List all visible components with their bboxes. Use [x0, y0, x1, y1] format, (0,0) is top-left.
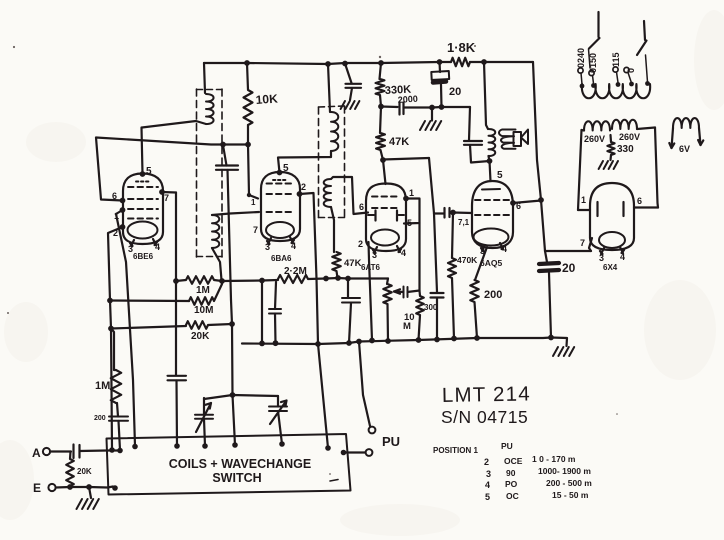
svg-text:1: 1	[581, 195, 586, 205]
wire B+ rail right down	[533, 62, 591, 251]
resistor 1M horizontal	[176, 276, 222, 284]
ground bus bypass	[341, 101, 360, 109]
svg-text:4: 4	[620, 252, 625, 262]
node gb-1	[273, 340, 279, 346]
capacitor A input	[72, 445, 74, 459]
node bus-cap	[342, 61, 348, 67]
wire V5 pin7 lead	[589, 238, 592, 251]
node tap-115	[616, 82, 621, 87]
svg-text:5: 5	[283, 163, 289, 174]
node tap-0150	[591, 83, 596, 88]
wire V1 pin7 right	[162, 191, 176, 194]
capacitor 2000p	[398, 102, 400, 115]
node sw-7	[279, 441, 285, 447]
wire T1 secondary bottom to AVC node	[212, 248, 222, 280]
svg-text:20K: 20K	[191, 331, 210, 342]
wire V1 pin6 loop	[96, 138, 248, 201]
svg-text:7,1: 7,1	[458, 218, 470, 227]
node gnd-2000	[429, 105, 435, 111]
wire V3 diode detector loop	[404, 199, 420, 224]
svg-text:COILS + WAVECHANGE: COILS + WAVECHANGE	[169, 457, 312, 471]
node bus-10K	[244, 60, 250, 66]
node sw-8	[325, 445, 331, 451]
wire V5 plate right	[634, 206, 658, 208]
node bus-20uF	[437, 59, 443, 65]
wire T2 secondary top to V3 grid	[331, 177, 368, 214]
transformer HT secondary winding	[584, 120, 637, 131]
wire V3 pin2 to ground bus	[369, 242, 373, 340]
capacitor 200p osc line	[168, 375, 187, 377]
variable capacitor VC2	[269, 406, 287, 408]
resistor 330K	[376, 63, 385, 107]
node bus-IF2	[325, 61, 331, 67]
node E-box	[112, 485, 118, 491]
svg-text:200 - 500 m: 200 - 500 m	[546, 478, 592, 488]
node E-20K	[67, 484, 73, 490]
resistor 330 centre tap	[607, 135, 614, 155]
svg-text:15 - 50 m: 15 - 50 m	[552, 490, 589, 500]
svg-text:20: 20	[449, 86, 461, 98]
wire V4 pin6 to B+	[513, 201, 541, 204]
node gb-2	[315, 341, 321, 347]
node B+ pin6	[538, 197, 544, 203]
svg-text:300: 300	[424, 303, 438, 312]
svg-text:POSITION 1: POSITION 1	[433, 446, 478, 455]
wire osc line down to switch	[231, 300, 235, 445]
svg-text:47K: 47K	[389, 136, 409, 148]
ground HT filter	[431, 108, 433, 121]
svg-text:A: A	[32, 446, 41, 460]
node varcap junction	[230, 392, 236, 398]
svg-text:E: E	[33, 481, 41, 495]
node tap-right	[645, 81, 650, 86]
wire tone cap lead	[469, 107, 470, 141]
capacitor V4 grid bypass	[431, 292, 444, 294]
potentiometer 10M volume	[383, 279, 391, 342]
node gb-8	[434, 337, 440, 343]
node sw-3	[132, 444, 138, 450]
svg-text:3: 3	[486, 469, 491, 479]
svg-text:200: 200	[484, 289, 502, 301]
wire B+ top bus left section	[204, 62, 451, 64]
svg-text:6: 6	[359, 202, 364, 212]
svg-text:1: 1	[409, 188, 414, 198]
capacitor V2 cathode bypass	[269, 308, 281, 310]
resistor 1.8K	[451, 58, 470, 66]
variable capacitor VC1	[195, 414, 213, 416]
svg-text:OC: OC	[506, 491, 519, 501]
svg-text:PU: PU	[382, 434, 400, 449]
node V4 grid	[450, 210, 456, 216]
capacitor tone 0.01	[464, 140, 482, 142]
switch mains pole 2	[637, 41, 647, 56]
wire V1 pin2 down to switch	[108, 227, 123, 449]
IF transformer T2 core (dashed box)	[318, 107, 320, 218]
svg-text:1: 1	[251, 198, 256, 207]
wire 20uF bottom	[432, 106, 470, 109]
svg-text:4: 4	[401, 248, 406, 258]
node AVC tap lower	[108, 326, 114, 332]
node 20uF-bottom	[439, 104, 445, 110]
svg-text:6BA6: 6BA6	[271, 254, 292, 263]
ground main	[551, 338, 567, 347]
terminal tap circle 0150	[589, 70, 594, 75]
wire OPT primary bottom	[489, 156, 491, 181]
node avc-b	[335, 275, 341, 281]
svg-text:6: 6	[637, 196, 642, 206]
capacitor AF coupling	[434, 212, 444, 214]
inductor T1 secondary	[212, 215, 219, 248]
svg-text:5: 5	[146, 166, 152, 177]
svg-text:S/N 04715: S/N 04715	[441, 407, 528, 427]
resistor 20K A-E	[66, 452, 74, 487]
svg-text:10M: 10M	[194, 305, 213, 316]
resistor 200 cathode	[470, 247, 487, 338]
node gb-6	[385, 338, 391, 344]
inductor OPT primary	[489, 129, 496, 156]
node cathode V2 junction	[259, 278, 265, 284]
svg-text:4: 4	[485, 480, 490, 490]
tube V2 6BA6 envelope and internals	[261, 172, 300, 241]
wire bus to T2 primary	[328, 64, 330, 112]
pin 6 V4	[510, 200, 516, 206]
mark inside box	[330, 480, 338, 482]
wire PU upper	[359, 342, 370, 427]
svg-text:SWITCH: SWITCH	[212, 471, 261, 485]
wire E to switch	[56, 487, 113, 488]
wire V2 pin2 down to bus	[300, 193, 319, 344]
svg-text:115: 115	[611, 52, 621, 67]
svg-text:260V: 260V	[584, 134, 605, 144]
svg-text:6V: 6V	[679, 144, 690, 154]
node sw-9	[341, 450, 347, 456]
svg-text:200: 200	[94, 415, 106, 422]
node gb-3	[346, 340, 352, 346]
switch mains pole 1	[589, 38, 600, 49]
wire HT box	[578, 128, 658, 211]
resistor 20K horizontal	[186, 321, 232, 329]
node gb-10	[474, 335, 480, 341]
inductor OPT secondary	[499, 130, 516, 149]
svg-text:470K: 470K	[457, 255, 478, 265]
wire V1 pin1 down to switch	[116, 210, 135, 446]
node gb-4	[356, 339, 362, 345]
svg-text:4: 4	[155, 242, 160, 252]
svg-text:7: 7	[164, 193, 169, 203]
svg-text:M: M	[403, 321, 411, 332]
svg-text:260V: 260V	[619, 132, 640, 142]
pin 2 V2	[297, 191, 303, 197]
node sw-6	[232, 442, 238, 448]
node gb-5	[369, 338, 375, 344]
wire cap to switch	[80, 449, 121, 452]
arrow 6V left	[669, 143, 674, 148]
svg-text:1000- 1900 m: 1000- 1900 m	[538, 466, 591, 476]
node pin7-1M junction	[173, 278, 179, 284]
tube V3 6AT6 envelope and internals	[366, 184, 406, 252]
node AVC tap upper	[107, 298, 113, 304]
wire V2 cathode ground	[261, 281, 263, 344]
svg-text:PO: PO	[505, 479, 518, 489]
inductor T2 primary	[331, 112, 338, 151]
capacitor 20uF second electrolytic	[545, 251, 547, 262]
terminal tap circle 0	[613, 67, 618, 72]
svg-text:2: 2	[484, 457, 489, 467]
wire varcap top link	[204, 395, 278, 399]
transformer mains primary winding	[582, 84, 650, 98]
tube V4 6AQ5 envelope and internals	[472, 181, 513, 248]
wire 10K junction down to V2 pin	[248, 145, 258, 199]
resistor 10M horizontal	[189, 284, 222, 305]
node sw-1	[109, 447, 115, 453]
resistor 47K IF2	[332, 252, 340, 278]
node 20K junction	[229, 321, 235, 327]
node avc-c	[345, 276, 351, 282]
svg-text:10K: 10K	[255, 91, 278, 107]
svg-text:1·8K: 1·8K	[447, 40, 476, 55]
svg-text:4: 4	[502, 244, 507, 254]
wire 6V leads	[672, 128, 701, 148]
wire V1 pin5 top cap	[142, 128, 143, 174]
svg-text:2000: 2000	[397, 94, 418, 105]
svg-text:OCE: OCE	[504, 456, 523, 466]
terminal tap circle 0240	[578, 68, 583, 73]
svg-text:0240: 0240	[576, 48, 586, 68]
wire T2 secondary bottom to 47K	[331, 207, 334, 252]
resistor 10K	[244, 63, 253, 125]
arrow 6V right	[698, 140, 703, 145]
capacitor AVC decouple	[342, 297, 360, 299]
svg-text:4: 4	[291, 241, 296, 251]
wire bus to switch	[318, 344, 328, 448]
pin 5 V2	[277, 170, 283, 176]
svg-text:2·2M: 2·2M	[284, 266, 307, 277]
wire A to cap	[50, 450, 71, 452]
pin 2 V1	[120, 224, 126, 230]
inductor T2 secondary	[324, 179, 331, 207]
svg-text:330: 330	[617, 144, 634, 155]
svg-text:1M: 1M	[196, 285, 210, 296]
wire V2 pin5 to T2 primary	[278, 151, 331, 173]
wire V5 plate left	[578, 209, 590, 211]
svg-text:2: 2	[358, 239, 363, 249]
node gb-0	[259, 341, 265, 347]
inductor 6V winding	[673, 118, 699, 128]
svg-text:90: 90	[506, 468, 516, 478]
wire B+ to OPT primary	[484, 62, 488, 129]
speaker	[514, 132, 522, 146]
wire T1 secondary top to V2 grid	[212, 212, 259, 215]
box coils and wavechange switch	[107, 434, 351, 495]
svg-text:6AT6: 6AT6	[361, 263, 381, 272]
svg-text:PU: PU	[501, 441, 513, 451]
ground E	[89, 487, 91, 498]
svg-text:7: 7	[253, 225, 258, 235]
svg-text:1M: 1M	[95, 380, 110, 392]
wire PU lower	[344, 451, 366, 453]
wire T1 primary bottom to V1 grid cap	[142, 121, 206, 128]
wire 47K junction to coupling	[383, 158, 429, 160]
pin 7 V1	[159, 189, 165, 195]
wire 10K bottom lead	[247, 125, 249, 144]
node gb-11	[548, 335, 554, 341]
resistor 2.2M	[278, 275, 388, 283]
node gb-7	[416, 337, 422, 343]
svg-text:0: 0	[626, 68, 636, 73]
wire pin7 line down to cap	[175, 193, 177, 376]
capacitor detector coupling with wiper arrow	[403, 287, 405, 298]
capacitor bus bypass	[345, 64, 352, 84]
wire ground bus	[242, 338, 551, 345]
node V2 input	[247, 193, 251, 197]
svg-text:20: 20	[562, 261, 576, 275]
IF transformer T1 core (dashed box)	[196, 89, 198, 257]
wire V3 grid lead	[383, 160, 386, 184]
node bus-OPT	[481, 59, 487, 65]
node sw-5	[202, 443, 208, 449]
wire bus corner to T1 primary	[204, 63, 205, 93]
node sw-2	[117, 448, 123, 454]
wire tone to ground	[434, 214, 437, 293]
resistor 470K grid leak	[448, 213, 456, 339]
svg-text:3: 3	[265, 242, 270, 252]
pin 6 V1	[120, 198, 126, 204]
resistor 300 detector load	[416, 291, 424, 341]
ground centre tap	[609, 155, 612, 160]
capacitor 20uF first electrolytic	[438, 62, 441, 72]
specks	[7, 45, 618, 475]
wire B+ top bus right section	[470, 61, 533, 63]
terminal tap circle 0	[624, 67, 629, 72]
tube V1 6BE6 envelope and internals	[123, 174, 163, 245]
svg-text:6BE6: 6BE6	[133, 252, 154, 261]
svg-text:1 0 - 170 m: 1 0 - 170 m	[532, 454, 576, 464]
node 330K-2000 junction	[378, 104, 384, 110]
pin 1 V1	[120, 207, 126, 213]
wire 10M link	[110, 299, 189, 302]
wire detector down	[418, 223, 420, 291]
node grid line cap tap	[220, 142, 226, 148]
node OPT plate junction	[487, 158, 493, 164]
wire 20K link	[111, 326, 186, 329]
node 10K bottom junction	[245, 142, 251, 148]
svg-text:47K: 47K	[344, 258, 362, 269]
wire coupling link	[429, 158, 434, 214]
wire HT top	[582, 128, 656, 131]
wire HT filter link	[381, 105, 398, 108]
svg-text:3: 3	[372, 250, 377, 260]
terminal PU2	[366, 449, 373, 456]
svg-text:2: 2	[301, 182, 306, 192]
pin 5 V1	[140, 171, 146, 177]
terminal PU1	[369, 427, 376, 434]
node bus-330K	[378, 60, 384, 66]
svg-text:LMT 214: LMT 214	[442, 382, 531, 407]
svg-text:5: 5	[497, 170, 503, 181]
tube V5 6X4 envelope and internals	[590, 183, 634, 250]
node avc-a	[323, 276, 329, 282]
resistor 47K first	[376, 107, 385, 161]
node tap-0240	[580, 84, 585, 89]
resistor 1M vertical	[111, 329, 121, 404]
capacitor 200p A-line	[109, 416, 128, 418]
node sw-4	[174, 443, 180, 449]
svg-text:3: 3	[599, 253, 604, 263]
inductor T1 primary	[206, 94, 214, 124]
pin 1 V3	[403, 196, 409, 202]
wire AVC to 2.2M	[222, 280, 278, 281]
svg-text:20K: 20K	[77, 467, 92, 476]
svg-text:5: 5	[485, 492, 490, 502]
node gb-9	[451, 336, 457, 342]
node E-gnd	[86, 484, 92, 490]
svg-text:7: 7	[580, 238, 585, 248]
node 47K-grid junction	[380, 157, 386, 163]
svg-text:6X4: 6X4	[603, 263, 618, 272]
node osc junction	[219, 278, 225, 284]
capacitor osc grid (padder)	[216, 164, 238, 166]
